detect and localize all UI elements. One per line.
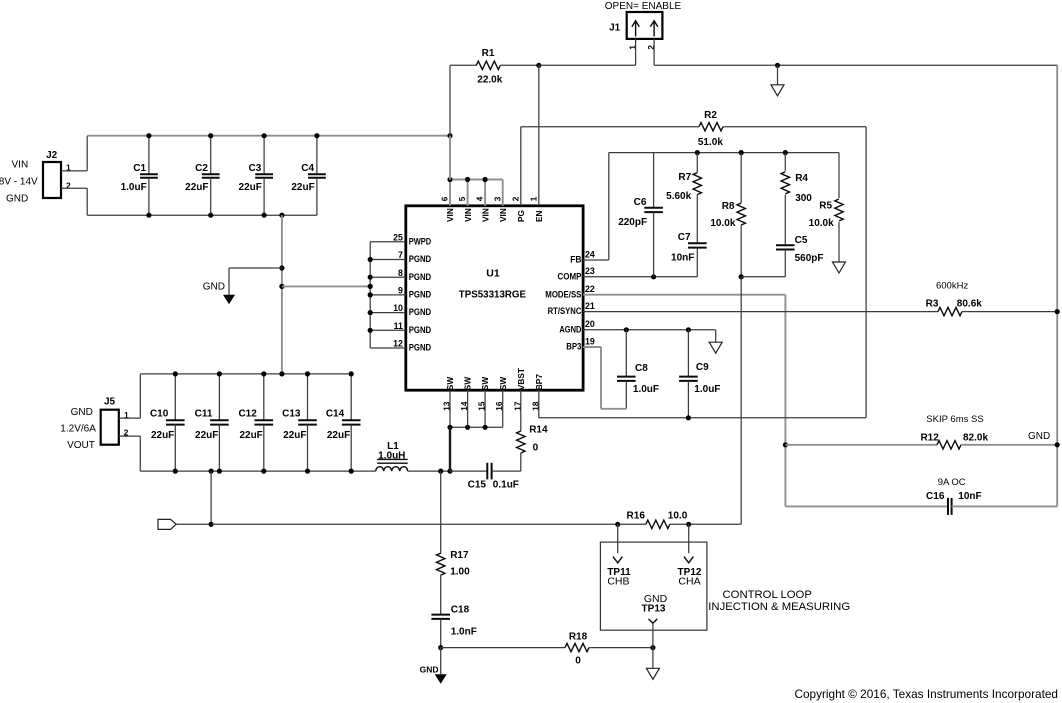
svg-text:7: 7 [398, 250, 403, 260]
svg-text:R14: R14 [529, 424, 548, 435]
svg-text:C2: C2 [195, 163, 208, 174]
wire MODE/SS vertical [784, 295, 786, 507]
svg-text:FB: FB [570, 255, 581, 265]
svg-text:C15: C15 [468, 480, 487, 491]
svg-text:SW: SW [480, 377, 490, 391]
wire BP7 pin drop [538, 390, 540, 418]
svg-text:C16: C16 [926, 491, 945, 502]
svg-text:INJECTION & MEASURING: INJECTION & MEASURING [708, 601, 850, 613]
junction R8 bottom injection node [739, 274, 744, 279]
wire U1 pin 12 stub [370, 347, 406, 349]
svg-text:1.0uF: 1.0uF [694, 384, 720, 395]
wire SW pin x=450.0 [449, 390, 451, 427]
wire J2 pin2 [61, 187, 87, 189]
junction R4 top [783, 150, 788, 155]
wire J5 pin2 [119, 435, 141, 437]
svg-text:10nF: 10nF [671, 252, 694, 263]
wire VIN pin x=467.6 [467, 180, 469, 206]
resistor R2 51.0k [521, 110, 866, 148]
svg-text:TP13: TP13 [642, 604, 666, 615]
pin 15 SW [478, 377, 491, 411]
svg-text:Copyright © 2016, Texas Instru: Copyright © 2016, Texas Instruments Inco… [794, 687, 1058, 701]
svg-text:1.2V/6A: 1.2V/6A [60, 424, 96, 435]
svg-text:12: 12 [393, 339, 403, 349]
wire J1 pin2 to GND net [654, 64, 1057, 66]
svg-text:10.0k: 10.0k [710, 218, 735, 229]
junction R7 top [695, 150, 700, 155]
capacitor C5 560pF [776, 235, 824, 277]
svg-text:C13: C13 [282, 409, 301, 420]
wire FB stub [583, 259, 609, 261]
svg-text:C5: C5 [795, 235, 808, 246]
wire VIN pin x=450.0 [449, 180, 451, 206]
junction GND tap [279, 213, 284, 218]
svg-text:22uF: 22uF [291, 182, 314, 193]
svg-text:PGND: PGND [409, 325, 432, 335]
wire SW pin x=485.1 [484, 390, 486, 427]
junction C13 top [305, 371, 310, 376]
junction GND symbol tap [279, 265, 284, 270]
svg-text:AGND: AGND [559, 324, 581, 334]
connector J1 [609, 12, 662, 50]
wire injection vertical [740, 277, 742, 525]
svg-text:C4: C4 [301, 163, 314, 174]
wire L1 to SW [408, 470, 450, 472]
pin 11 PGND [394, 321, 432, 335]
svg-text:SW: SW [498, 377, 508, 391]
resistor R5 10.0k [809, 153, 844, 262]
svg-text:9: 9 [398, 286, 403, 296]
capacitor C8 1.0uF [617, 330, 659, 409]
svg-text:1.0uF: 1.0uF [633, 384, 659, 395]
junction C6 bottom [651, 274, 656, 279]
junction VIN bus to R1 riser [447, 133, 452, 138]
wire U1 pin 11 stub [370, 329, 406, 331]
pin 12 PGND [393, 339, 431, 353]
svg-text:22uF: 22uF [239, 430, 262, 441]
junction C11 top [217, 371, 222, 376]
wire J2 pin1 riser to VIN bus [86, 136, 88, 171]
capacitor C6 220pF [618, 153, 663, 277]
wire PGND feed to U1 [282, 285, 370, 287]
capacitor C14 22uF [326, 374, 361, 471]
wire R1 left riser [449, 65, 451, 135]
wire J1 pin2 drop [653, 39, 655, 65]
svg-text:25: 25 [393, 232, 403, 242]
ground top (open) [771, 85, 784, 96]
capacitor C7 10nF [671, 232, 707, 277]
svg-text:PGND: PGND [409, 307, 432, 317]
capacitor C18 1.0nF [431, 604, 476, 647]
wire SW tie [450, 426, 503, 428]
wire GND stub [777, 65, 779, 85]
resistor R4 300 [781, 153, 812, 246]
ground GND input [203, 282, 235, 305]
svg-text:VIN: VIN [12, 160, 29, 171]
svg-text:5: 5 [458, 196, 467, 201]
svg-text:PGND: PGND [409, 343, 432, 353]
pin 20 AGND [559, 319, 594, 334]
junction PGND bus [368, 310, 373, 315]
junction C12 bottom [261, 469, 266, 474]
junction C1 bottom [146, 213, 151, 218]
svg-text:GND: GND [6, 194, 28, 205]
wire VOUT bus [140, 470, 375, 472]
off-page connector VOUT flag [158, 519, 176, 529]
svg-text:PG: PG [516, 210, 526, 222]
svg-text:PGND: PGND [409, 272, 432, 282]
svg-text:300: 300 [795, 193, 812, 204]
svg-text:PGND: PGND [409, 254, 432, 264]
junction C9 bottom [686, 415, 691, 420]
pin 6 VIN [441, 196, 456, 222]
svg-text:GND: GND [203, 282, 225, 293]
junction R8 top [739, 150, 744, 155]
junction EN node [536, 63, 541, 68]
wire AGND gnd stub [715, 330, 717, 342]
svg-text:C14: C14 [326, 409, 345, 420]
svg-text:TPS53313RGE: TPS53313RGE [459, 289, 527, 300]
svg-text:OPEN= ENABLE: OPEN= ENABLE [605, 1, 682, 12]
wire COMP rail [583, 276, 697, 278]
svg-text:22uF: 22uF [151, 430, 174, 441]
test point box CONTROL LOOP [600, 542, 707, 630]
svg-text:80.6k: 80.6k [957, 298, 982, 309]
pin 24 FB [570, 249, 595, 264]
capacitor C16 10nF [785, 491, 1057, 515]
op-amp U1 TPS53313RGE body [406, 206, 583, 390]
pin 16 SW [495, 377, 508, 411]
wire output GND bus [140, 373, 351, 375]
junction PGND bus [368, 328, 373, 333]
svg-text:23: 23 [585, 266, 595, 276]
svg-text:22uF: 22uF [239, 182, 262, 193]
wire TP13 gnd stub [652, 648, 654, 669]
svg-text:VIN: VIN [445, 208, 455, 222]
pin 4 VIN [476, 196, 491, 222]
svg-text:R8: R8 [722, 201, 735, 212]
junction VIN tie pin4 [483, 177, 488, 182]
svg-text:20: 20 [585, 319, 595, 329]
wire R2 right vertical to BP7 [865, 127, 867, 418]
svg-text:0: 0 [533, 443, 539, 454]
svg-text:J1: J1 [609, 23, 621, 34]
svg-text:C11: C11 [195, 409, 213, 420]
svg-text:J5: J5 [104, 396, 116, 407]
wire GND stub bottom [440, 648, 442, 675]
svg-text:10.0: 10.0 [668, 510, 688, 521]
capacitor C15 0.1uF [450, 463, 521, 491]
test point TP11 CHB [607, 524, 631, 587]
wire J5 pin1 riser [139, 374, 141, 418]
junction C14 bottom [349, 469, 354, 474]
svg-text:SKIP 6ms SS: SKIP 6ms SS [926, 414, 983, 425]
junction PGND bus [368, 275, 373, 280]
pin 23 COMP [558, 266, 595, 281]
capacitor C3 [239, 136, 273, 216]
svg-text:BP3: BP3 [566, 342, 581, 352]
svg-text:COMP: COMP [558, 271, 582, 281]
svg-text:CHB: CHB [607, 575, 629, 587]
label CONTROL LOOP INJECTION & MEASURING [708, 589, 850, 613]
pin 7 PGND [398, 250, 431, 264]
svg-text:220pF: 220pF [618, 217, 647, 228]
svg-text:SW: SW [445, 377, 455, 391]
junction C11 bottom [217, 469, 222, 474]
wire BP3 to C8 bottom [601, 408, 626, 410]
svg-text:PGND: PGND [409, 290, 432, 300]
capacitor C12 22uF [238, 374, 273, 471]
svg-text:10nF: 10nF [958, 491, 981, 502]
svg-text:EN: EN [534, 210, 544, 222]
junction C9 top [686, 327, 691, 332]
resistor R3 80.6k [583, 298, 1057, 316]
svg-text:1.0uF: 1.0uF [121, 182, 147, 193]
resistor R7 5.60k [666, 153, 701, 244]
wire U1 pin 25 stub [370, 241, 406, 243]
junction SW tie pin13 [447, 425, 452, 430]
junction GND net R3 [1055, 309, 1060, 314]
J2 side labels VIN 8V-14V GND [0, 160, 38, 205]
ground R5 (open) [833, 262, 846, 273]
svg-text:C8: C8 [635, 363, 648, 374]
svg-text:C9: C9 [696, 362, 709, 373]
wire U1 pin 7 stub [370, 259, 406, 261]
resistor R16 10.0 [211, 510, 741, 528]
svg-text:SW: SW [463, 377, 473, 391]
pin 25 PWPD [393, 232, 431, 246]
junction PGND bus [368, 292, 373, 297]
svg-text:GND: GND [1028, 431, 1050, 442]
resistor R17 1.00 [437, 471, 471, 614]
junction TP12 [686, 522, 691, 527]
svg-text:10.0k: 10.0k [809, 218, 834, 229]
wire MODE/SS [583, 294, 785, 296]
svg-text:C1: C1 [133, 163, 146, 174]
wire VIN bus to tie [449, 136, 451, 180]
svg-text:R7: R7 [678, 172, 691, 183]
svg-text:R1: R1 [482, 48, 495, 59]
resistor R12 82.0k [785, 432, 1057, 449]
capacitor C2 [185, 136, 219, 216]
svg-text:GND: GND [420, 664, 439, 674]
svg-text:11: 11 [394, 321, 403, 331]
svg-text:VBST: VBST [516, 368, 526, 390]
capacitor C10 22uF [150, 374, 185, 471]
svg-text:GND: GND [71, 407, 93, 418]
svg-text:19: 19 [585, 336, 595, 346]
wire GND net right vertical [1056, 65, 1058, 506]
wire SW pin x=467.6 [467, 390, 469, 427]
junction PGND feed [279, 284, 284, 289]
junction GND symbol tap top [775, 63, 780, 68]
svg-text:C12: C12 [238, 409, 257, 420]
svg-text:0.1uF: 0.1uF [493, 480, 519, 491]
capacitor C11 22uF [195, 374, 229, 471]
svg-text:C3: C3 [249, 163, 262, 174]
ground AGND (open) [709, 342, 722, 353]
pin 3 VIN [493, 196, 508, 222]
svg-text:PWPD: PWPD [409, 236, 432, 246]
junction C8 top [624, 327, 629, 332]
svg-text:22uF: 22uF [185, 182, 208, 193]
junction SW node [447, 469, 452, 474]
svg-text:22: 22 [585, 284, 595, 294]
capacitor C1 [121, 136, 158, 216]
wire VIN pin x=502.7 [502, 180, 504, 206]
svg-text:1.0nF: 1.0nF [451, 627, 477, 638]
svg-text:J2: J2 [46, 150, 58, 161]
svg-text:2: 2 [511, 196, 520, 201]
svg-text:24: 24 [585, 249, 595, 259]
svg-text:22.0k: 22.0k [477, 75, 502, 86]
wire VIN pin tie [450, 179, 503, 181]
pin 22 MODE/SS [545, 284, 595, 299]
wire EN vertical [538, 65, 540, 206]
junction C10 bottom [173, 469, 178, 474]
junction SW tie pin14 [465, 425, 470, 430]
svg-text:R16: R16 [627, 510, 646, 521]
svg-text:C10: C10 [150, 409, 169, 420]
wire U1 pin 10 stub [370, 312, 406, 314]
resistor R1 22.0k [450, 48, 539, 85]
svg-text:VIN: VIN [463, 208, 473, 222]
svg-text:VIN: VIN [480, 208, 490, 222]
connector J2 [43, 150, 71, 198]
pin 21 RT/SYNC [548, 301, 595, 316]
pin 17 VBST [513, 368, 526, 411]
svg-text:U1: U1 [486, 268, 500, 280]
wire VIN top bus [87, 135, 450, 137]
pin 2 PG [511, 196, 526, 222]
resistor R14 0 [517, 390, 548, 471]
test point TP12 CHA [678, 524, 702, 587]
wire BP3 vertical [600, 347, 602, 409]
junction C4 top [314, 133, 319, 138]
wire GND vertical input-to-output [281, 215, 283, 374]
svg-text:0: 0 [575, 656, 581, 667]
junction SW tie pin15 [483, 425, 488, 430]
pin 10 PGND [393, 303, 431, 317]
wire SW pin x=502.7 [502, 390, 504, 427]
svg-text:5.60k: 5.60k [666, 191, 691, 202]
svg-text:9A OC: 9A OC [938, 477, 966, 488]
wire flag to tap [176, 523, 211, 525]
junction C3 bottom [262, 213, 267, 218]
svg-text:1.00: 1.00 [450, 567, 470, 578]
svg-text:560pF: 560pF [795, 253, 824, 264]
wire BP3 stub [583, 346, 601, 348]
wire U1 pin 8 stub [370, 276, 406, 278]
pin 19 BP3 [566, 336, 595, 351]
svg-text:VOUT: VOUT [67, 440, 95, 451]
junction PGND bus [368, 257, 373, 262]
wire VIN pin x=485.1 [484, 180, 486, 206]
junction sense line [209, 522, 214, 527]
junction R12 left [783, 442, 788, 447]
junction VIN tie pin6 [447, 177, 452, 182]
svg-text:8: 8 [398, 268, 403, 278]
junction PGND bus [368, 284, 373, 289]
wire J1 pin1 drop [635, 39, 637, 65]
junction C3 top [262, 133, 267, 138]
junction C18 bottom [438, 645, 443, 650]
wire J2 pin1 [61, 170, 87, 172]
junction C2 bottom [208, 213, 213, 218]
svg-text:22uF: 22uF [283, 430, 306, 441]
wire AGND [583, 329, 716, 331]
wire J2 pin2 riser to PGND bus [86, 188, 88, 215]
junction C13 bottom [305, 469, 310, 474]
wire R8 bottom to C5 [741, 276, 785, 278]
svg-text:82.0k: 82.0k [963, 432, 988, 443]
ground TP13 (open) [646, 668, 659, 679]
wire to GND symbol [229, 267, 282, 269]
pin 14 SW [460, 377, 473, 411]
svg-text:8V - 14V: 8V - 14V [0, 177, 38, 188]
svg-text:MODE/SS: MODE/SS [545, 289, 581, 299]
pin 9 PGND [398, 286, 431, 300]
J5 side labels GND 1.2V/6A VOUT [60, 407, 96, 451]
wire J5 pin2 riser [139, 436, 141, 471]
svg-text:R4: R4 [795, 173, 808, 184]
junction GND net R12 [1055, 442, 1060, 447]
wire EN node to J1 pin1 [539, 64, 636, 66]
svg-text:1: 1 [529, 196, 538, 201]
pin 1 EN [529, 196, 544, 222]
junction C14 top [349, 371, 354, 376]
pin 8 PGND [398, 268, 431, 282]
svg-text:22uF: 22uF [195, 430, 218, 441]
wire VOUT sense drop [210, 471, 212, 524]
svg-text:C18: C18 [451, 604, 470, 615]
svg-text:R17: R17 [450, 550, 469, 561]
svg-text:21: 21 [585, 301, 595, 311]
junction C1 top [146, 133, 151, 138]
svg-text:VIN: VIN [498, 208, 508, 222]
connector J5 [101, 396, 129, 444]
capacitor C9 1.0uF [679, 330, 720, 418]
svg-text:CHA: CHA [678, 575, 700, 587]
ground GND bottom [420, 664, 447, 684]
wire SW thick drop [449, 427, 451, 471]
svg-text:CONTROL LOOP: CONTROL LOOP [723, 589, 812, 601]
svg-text:R18: R18 [569, 631, 588, 642]
pin 5 VIN [458, 196, 473, 222]
wire BP7 rail [539, 417, 866, 419]
junction C10 top [173, 371, 178, 376]
svg-text:R12: R12 [920, 432, 939, 443]
junction GND vertical on output bus [279, 371, 284, 376]
svg-text:6: 6 [441, 196, 450, 201]
junction TP11 [615, 522, 620, 527]
junction VIN tie pin5 [465, 177, 470, 182]
wire input GND bottom bus [87, 214, 317, 216]
svg-text:22uF: 22uF [327, 430, 350, 441]
capacitor C4 [291, 136, 325, 216]
wire PG vertical [520, 127, 522, 206]
junction C12 top [261, 371, 266, 376]
wire U1 pin 9 stub [370, 294, 406, 296]
junction VOUT sense tap [209, 469, 214, 474]
svg-text:R2: R2 [704, 110, 717, 121]
svg-text:51.0k: 51.0k [698, 137, 723, 148]
svg-text:10: 10 [393, 303, 403, 313]
wire PGND left bus [369, 242, 371, 348]
inductor L1 1.0uH [376, 441, 408, 471]
svg-text:C7: C7 [678, 232, 691, 243]
resistor R18 0 [441, 631, 653, 666]
